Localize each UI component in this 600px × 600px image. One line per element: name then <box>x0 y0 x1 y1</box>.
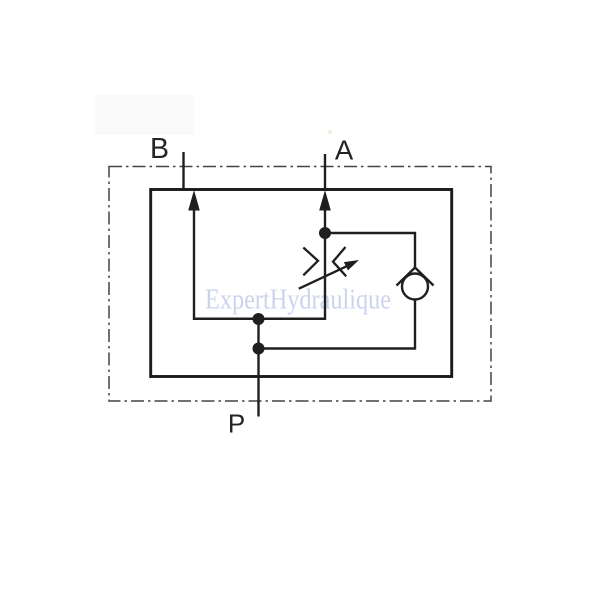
svg-text:ExpertHydraulique: ExpertHydraulique <box>205 284 391 316</box>
svg-text:B: B <box>150 133 169 165</box>
svg-text:A: A <box>335 135 354 166</box>
svg-text:P: P <box>228 409 245 439</box>
